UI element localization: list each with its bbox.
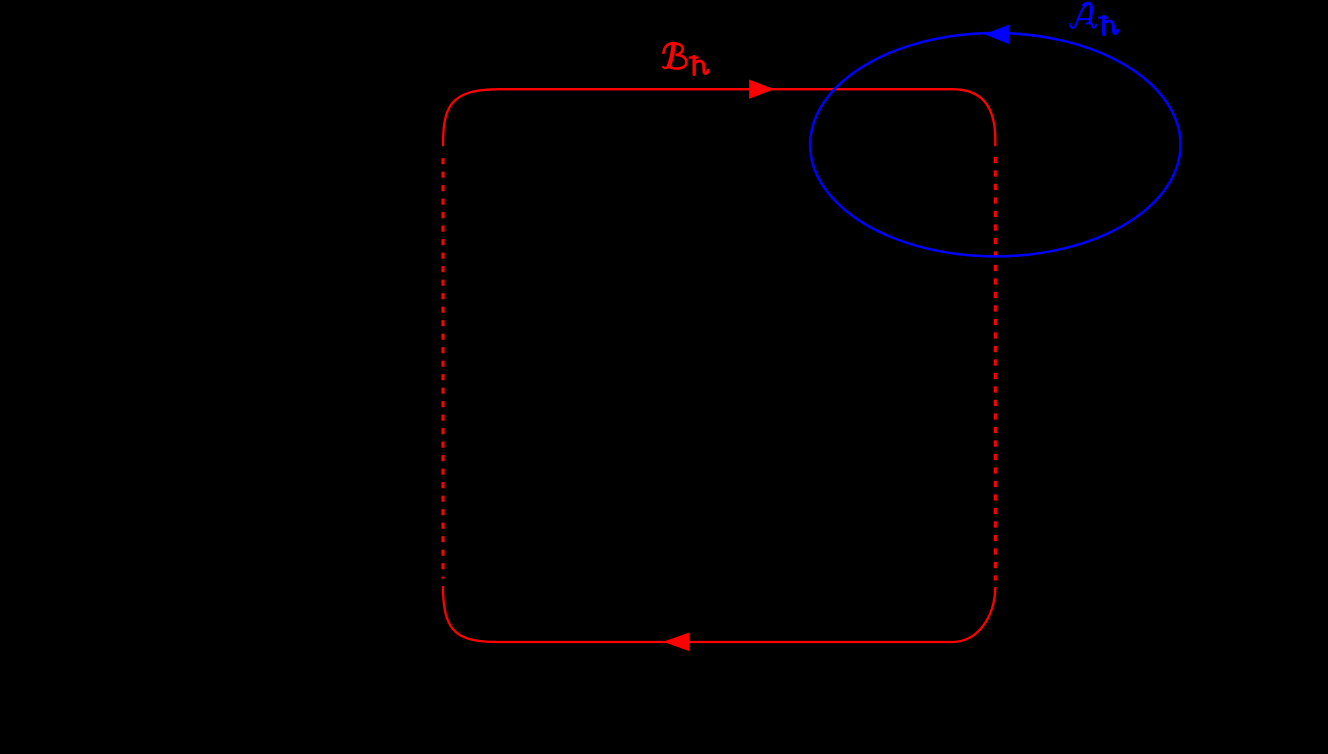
A-cycle ellipse (blue) bbox=[810, 33, 1180, 256]
B-cycle top arrowhead (rightward) bbox=[749, 80, 774, 99]
label A_h : subscript h (blue) bbox=[1099, 17, 1117, 35]
B-cycle left side (red, dashed) bbox=[441, 158, 444, 578]
A-cycle arrowhead (leftward, on top of ellipse) bbox=[984, 25, 1009, 44]
label B_h : calligraphic B (red) bbox=[663, 43, 686, 68]
label B_h : subscript h (red) bbox=[690, 57, 708, 75]
label A_h : calligraphic A (blue) bbox=[1070, 3, 1097, 28]
B-cycle bottom edge (red, solid, rounded corners) bbox=[443, 586, 995, 642]
B-cycle right side (red, dashed) bbox=[994, 157, 997, 581]
B-cycle bottom arrowhead (leftward) bbox=[663, 632, 689, 651]
B-cycle top edge (red, solid, rounded corners) bbox=[443, 89, 995, 146]
